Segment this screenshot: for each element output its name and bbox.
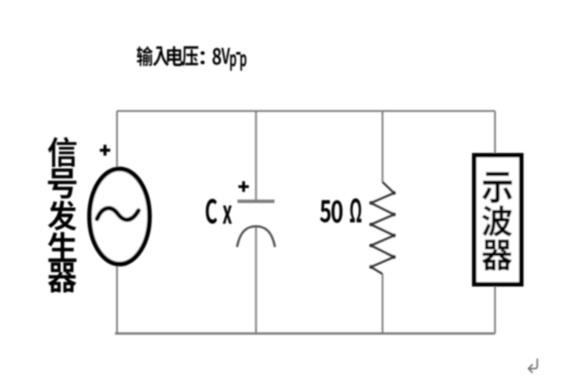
wire: capacitor branch top	[255, 111, 257, 200]
label: 信号发生器 (signal generator)	[48, 137, 77, 293]
capacitor Cx curved plate	[237, 226, 275, 247]
resistor vertex dots	[369, 191, 395, 268]
capacitor Cx polarity +	[238, 181, 248, 192]
capacitor Cx top plate	[238, 200, 275, 203]
label: 50 Ω	[320, 198, 361, 223]
wire: capacitor branch bottom	[255, 228, 257, 334]
wire: top rail	[117, 110, 495, 112]
source V1: AC signal generator circle	[90, 169, 150, 264]
wire: oscilloscope branch top	[494, 111, 496, 155]
resistor R zigzag	[371, 182, 394, 274]
wire: source branch vertical	[116, 111, 118, 334]
label: value 8Vp-p	[213, 48, 247, 71]
label: input voltage title 输入电压	[137, 46, 205, 66]
oscilloscope box U1	[474, 155, 521, 284]
wire: bottom rail	[115, 332, 495, 334]
wire: oscilloscope branch bottom	[494, 283, 496, 334]
label: Cx	[206, 199, 232, 224]
sine symbol inside source	[97, 208, 139, 220]
polarity + of source	[100, 145, 110, 156]
label: 示波器 (oscilloscope)	[482, 172, 512, 271]
paragraph return mark	[529, 359, 538, 373]
wire: resistor branch bottom	[382, 274, 384, 334]
wire: resistor branch top	[382, 111, 384, 182]
